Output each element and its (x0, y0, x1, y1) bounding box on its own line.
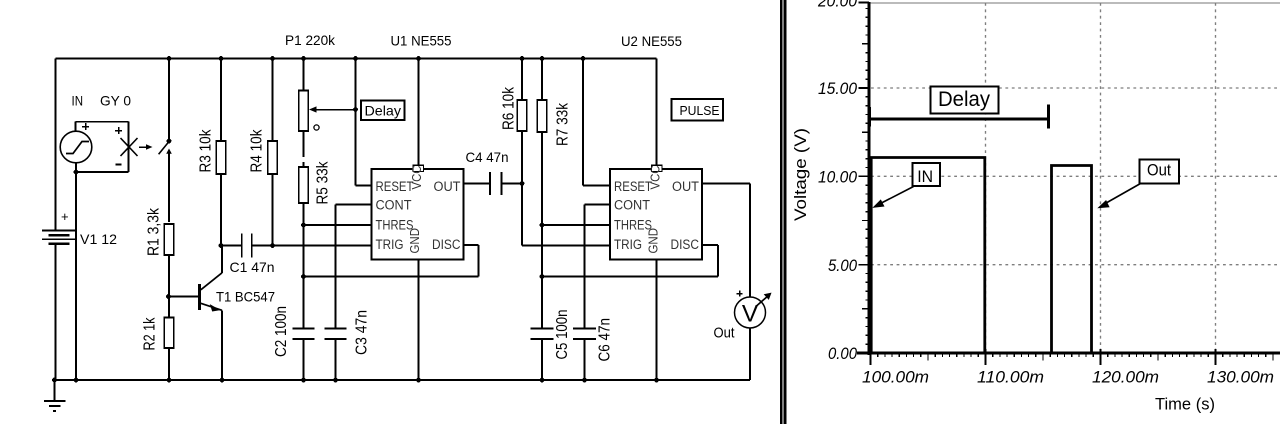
svg-text:RESET: RESET (614, 179, 652, 194)
svg-text:U2 NE555: U2 NE555 (621, 33, 682, 49)
svg-text:+: + (61, 209, 69, 224)
svg-text:VCC: VCC (648, 166, 663, 190)
svg-text:GND: GND (646, 228, 661, 254)
svg-text:C2 100n: C2 100n (273, 306, 290, 357)
svg-text:CONT: CONT (614, 198, 650, 213)
svg-text:R5 33k: R5 33k (315, 161, 332, 204)
svg-text:Voltage (V): Voltage (V) (791, 128, 810, 221)
svg-text:R6 10k: R6 10k (501, 87, 518, 130)
svg-text:GND: GND (407, 228, 422, 254)
svg-text:OUT: OUT (434, 179, 461, 194)
svg-text:15.00: 15.00 (818, 79, 857, 98)
svg-text:110.00m: 110.00m (977, 368, 1044, 387)
svg-text:Time (s): Time (s) (1155, 394, 1215, 413)
svg-text:5.00: 5.00 (828, 256, 857, 275)
svg-text:P1 220k: P1 220k (285, 32, 336, 48)
svg-text:C1 47n: C1 47n (230, 259, 275, 275)
svg-text:20.00: 20.00 (817, 0, 857, 11)
svg-text:PULSE: PULSE (680, 103, 720, 118)
svg-text:Delay: Delay (365, 103, 402, 119)
svg-text:TRIG: TRIG (614, 237, 642, 252)
svg-text:CONT: CONT (376, 198, 412, 213)
svg-text:IN: IN (917, 168, 933, 186)
svg-text:T1 BC547: T1 BC547 (216, 289, 275, 305)
svg-text:0.00: 0.00 (828, 344, 857, 363)
svg-text:C4 47n: C4 47n (466, 149, 509, 165)
svg-text:R1 3,3k: R1 3,3k (146, 208, 163, 256)
svg-text:GY 0: GY 0 (100, 93, 131, 109)
svg-text:RESET: RESET (376, 179, 414, 194)
svg-text:U1 NE555: U1 NE555 (391, 33, 452, 49)
svg-text:R7 33k: R7 33k (555, 103, 572, 146)
svg-text:Delay: Delay (938, 88, 990, 111)
svg-text:Out: Out (714, 326, 735, 342)
svg-text:R3 10k: R3 10k (198, 129, 215, 172)
svg-text:DISC: DISC (432, 237, 461, 252)
svg-text:R4 10k: R4 10k (249, 129, 266, 172)
svg-text:Out: Out (1147, 162, 1171, 180)
svg-text:C5 100n: C5 100n (554, 310, 571, 360)
svg-text:R2 1k: R2 1k (142, 317, 159, 350)
svg-text:C3 47n: C3 47n (353, 310, 370, 355)
svg-text:130.00m: 130.00m (1207, 368, 1274, 387)
svg-text:100.00m: 100.00m (862, 368, 929, 387)
svg-text:V: V (742, 301, 759, 328)
svg-text:C6 47n: C6 47n (597, 318, 614, 362)
svg-text:VCC: VCC (409, 166, 424, 190)
svg-text:TRIG: TRIG (376, 237, 404, 252)
svg-text:10.00: 10.00 (818, 168, 857, 187)
svg-text:OUT: OUT (672, 179, 699, 194)
svg-text:120.00m: 120.00m (1092, 368, 1159, 387)
svg-text:IN: IN (72, 93, 84, 109)
svg-text:V1 12: V1 12 (80, 231, 117, 247)
svg-text:DISC: DISC (671, 237, 700, 252)
